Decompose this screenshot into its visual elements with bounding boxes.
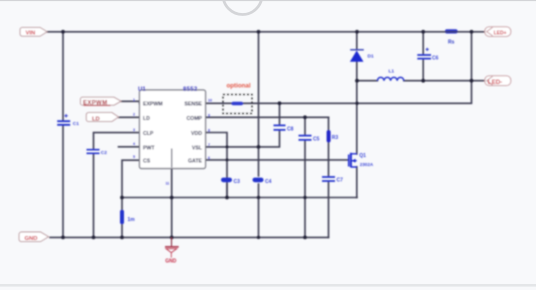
svg-text:CS: CS — [143, 159, 151, 165]
wire output cap column — [422, 32, 424, 81]
wire top rail VIN — [45, 31, 485, 33]
svg-text:EXPWM: EXPWM — [143, 101, 163, 107]
junction top rail / D1 column — [355, 30, 359, 34]
resistor R3 — [327, 130, 339, 142]
junction mid row / C4 column — [257, 196, 260, 199]
svg-text:optional: optional — [227, 83, 251, 90]
junction bottom rail / R1 column — [120, 236, 124, 240]
wire source vertical — [356, 167, 358, 198]
wire left pin5 elbow down — [122, 160, 140, 210]
svg-text:C1: C1 — [73, 121, 79, 127]
svg-text:C4: C4 — [265, 179, 272, 185]
svg-text:4: 4 — [133, 142, 135, 146]
junction COMP row / C5 column — [303, 115, 307, 119]
node EXPWM port tag — [81, 97, 122, 106]
svg-text:2302A: 2302A — [360, 162, 374, 167]
svg-text:COMP: COMP — [186, 116, 202, 122]
svg-text:PWT: PWT — [143, 145, 155, 151]
wire cap branch to sense — [279, 103, 281, 125]
svg-text:2: 2 — [133, 113, 135, 117]
junction LED- rail / feedback branch — [470, 79, 474, 83]
capacitor C1 — [57, 114, 79, 127]
inductor L1 — [377, 69, 403, 81]
svg-text:VIN: VIN — [26, 31, 36, 37]
junction VIN rail / C1 column — [61, 30, 65, 34]
wire mid row — [122, 197, 357, 199]
wire C3 column — [226, 184, 228, 198]
capacitor C4 — [253, 178, 272, 185]
wire left pin3 CLP elbow — [94, 133, 140, 149]
svg-text:1m: 1m — [128, 217, 136, 223]
svg-text:LED+: LED+ — [494, 30, 507, 36]
svg-text:VDD: VDD — [191, 131, 202, 137]
svg-text:LD: LD — [143, 116, 150, 122]
wire left main vertical upper — [62, 32, 64, 121]
svg-text:11: 11 — [166, 182, 170, 186]
svg-text:LD: LD — [92, 116, 100, 122]
wire IC ground pin — [171, 169, 173, 238]
wire R1 to bottom rail — [121, 224, 123, 237]
transistor Q1 — [349, 153, 374, 168]
node LD port tag — [86, 113, 118, 123]
resistor R1 — [120, 210, 135, 224]
junction VSL row / C3 column — [226, 145, 229, 148]
junction SENSE row / drain column — [355, 102, 358, 105]
node GND port tag — [19, 232, 48, 242]
junction bottom rail / C4 column — [257, 236, 260, 239]
junction bottom rail / ground — [170, 236, 174, 240]
svg-text:1: 1 — [133, 98, 135, 102]
wire bottom rail — [50, 236, 329, 238]
svg-text:U1: U1 — [138, 87, 146, 93]
capacitor C3 — [221, 178, 240, 185]
capacitor C5 — [299, 136, 320, 143]
wire left pin1 from PWM tag — [121, 101, 140, 103]
wire C4 column lower — [258, 184, 260, 237]
junction bottom rail / C2 column — [92, 236, 96, 240]
capacitor C7 — [322, 177, 343, 184]
resistor R4 optional — [232, 102, 244, 106]
capacitor C8 comp branch — [274, 125, 294, 132]
svg-text:6: 6 — [208, 156, 210, 160]
svg-text:C3: C3 — [234, 179, 241, 185]
wire left pin4 stub — [119, 146, 140, 148]
svg-text:CLP: CLP — [143, 131, 154, 137]
svg-text:GATE: GATE — [188, 159, 203, 165]
junction mid row / R1 column — [120, 196, 124, 200]
junction LED- rail / C6 column — [421, 79, 425, 83]
bottom gray screen edge line — [0, 284, 536, 287]
node LED- port tag — [485, 76, 511, 86]
svg-text:10: 10 — [208, 99, 212, 103]
svg-text:8: 8 — [208, 129, 210, 133]
svg-text:C8: C8 — [287, 127, 294, 133]
node VIN port tag — [20, 27, 47, 36]
svg-text:D1: D1 — [368, 54, 374, 60]
wire left main vertical lower — [62, 125, 64, 238]
svg-text:7: 7 — [208, 143, 210, 147]
svg-text:Q1: Q1 — [359, 153, 366, 159]
svg-text:GND: GND — [165, 259, 177, 265]
svg-text:3: 3 — [133, 128, 135, 132]
wire C4 column upper — [258, 32, 260, 176]
dashed optional box — [223, 95, 252, 114]
capacitor C6 output — [417, 48, 438, 62]
wire VSL row — [206, 131, 280, 147]
junction bottom rail / C5 column — [303, 236, 307, 240]
wire diode to LED- rail — [356, 62, 358, 81]
junction top rail / C4 column — [257, 30, 261, 34]
junction mid row / ground column — [170, 196, 174, 200]
svg-text:L1: L1 — [389, 69, 395, 75]
svg-text:C6: C6 — [432, 55, 439, 61]
svg-text:R3: R3 — [332, 135, 339, 141]
node LED+ port tag — [485, 27, 511, 37]
svg-text:C7: C7 — [337, 178, 344, 184]
ground — [165, 237, 179, 264]
svg-text:Rs: Rs — [448, 40, 455, 46]
junction GATE row / C3 column — [226, 158, 229, 161]
wire left pin2 from LD tag — [119, 116, 140, 118]
wire VDD row elbow — [206, 133, 228, 198]
U1 exposed pad pin 11 line — [171, 149, 173, 168]
svg-text:GND: GND — [25, 236, 38, 242]
svg-text:SENSE: SENSE — [184, 101, 202, 107]
junction mid row / C5 column — [303, 196, 306, 199]
wire LED- rail — [357, 80, 485, 82]
svg-text:LED-: LED- — [488, 79, 502, 86]
capacitor C2 — [87, 150, 108, 157]
svg-text:C2: C2 — [101, 150, 107, 156]
wire C5 column — [304, 117, 306, 237]
junction SENSE row / C8 branch — [278, 101, 282, 105]
junction D1 / L1 node — [355, 79, 359, 83]
diode D1 — [350, 50, 374, 62]
IC U1 body — [138, 87, 206, 169]
svg-text:5: 5 — [133, 155, 135, 159]
junction top rail / C6 column — [421, 30, 425, 34]
svg-text:C5: C5 — [313, 137, 320, 143]
wire GATE row — [206, 159, 349, 161]
watermark arc top center — [223, 0, 262, 15]
resistor R2 sense — [445, 29, 458, 45]
svg-text:8552: 8552 — [183, 87, 198, 93]
wire C2 column lower — [93, 154, 95, 238]
junction top rail / LED+ branch — [470, 30, 474, 34]
svg-text:VSL: VSL — [192, 145, 203, 151]
wire diode column top — [356, 32, 358, 50]
junction mid row / C3 column — [225, 196, 229, 200]
wire R3 C7 column — [328, 117, 330, 237]
junction bottom rail / C1 column — [61, 236, 65, 240]
wire drain vertical — [356, 81, 358, 154]
svg-text:9: 9 — [208, 114, 210, 118]
junction VSL row / C4 column — [257, 145, 261, 149]
wire SENSE row — [206, 32, 472, 104]
wire COMP row — [206, 116, 329, 118]
